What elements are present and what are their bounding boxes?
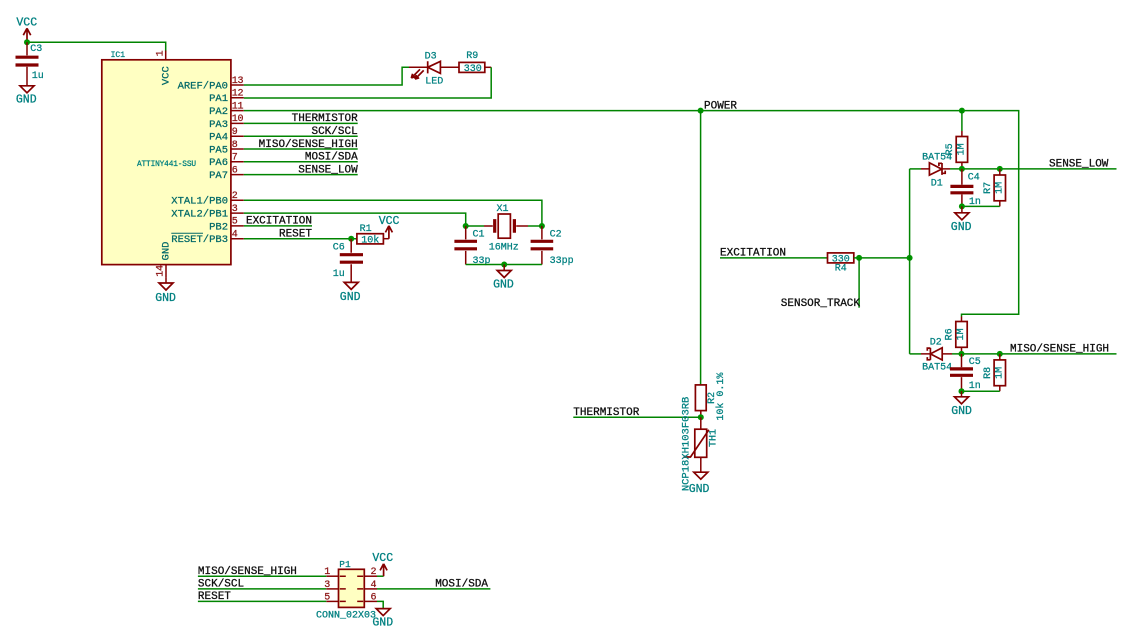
crystal X1 [489, 204, 519, 253]
wire SENSOR_TRACK stub [858, 258, 860, 308]
ground below C6 [340, 282, 361, 304]
capacitor C3 [16, 42, 44, 86]
wire with label THERMISTOR [573, 416, 701, 418]
wire pin11 POWER net horizontal [244, 111, 1019, 317]
wire with label MISO/SENSE_HIGH (P1 pin1) [198, 575, 326, 577]
capacitor C1 [454, 226, 490, 267]
svg-text:1u: 1u [32, 71, 44, 82]
svg-text:XTAL2/PB1: XTAL2/PB1 [171, 209, 228, 221]
svg-text:SENSOR_TRACK: SENSOR_TRACK [781, 298, 861, 310]
svg-text:1M: 1M [956, 143, 967, 155]
svg-text:C4: C4 [968, 172, 980, 183]
svg-text:SCK/SCL: SCK/SCL [198, 579, 244, 591]
resistor R5 [945, 111, 968, 169]
svg-text:R8: R8 [983, 367, 994, 379]
ground below TH1 [689, 472, 710, 496]
svg-text:R4: R4 [835, 264, 847, 275]
wire pin2 to crystal right [244, 200, 542, 226]
svg-text:2: 2 [371, 567, 377, 578]
junction THERMISTOR node [698, 414, 704, 420]
capacitor C2 [531, 226, 574, 267]
svg-text:10k: 10k [361, 235, 379, 247]
svg-text:1u: 1u [333, 269, 345, 280]
svg-text:R1: R1 [360, 224, 372, 235]
capacitor C5 [950, 354, 981, 392]
svg-text:C6: C6 [333, 242, 345, 253]
svg-text:TH1: TH1 [708, 429, 719, 447]
svg-text:PA1: PA1 [209, 93, 228, 105]
pin 1 VCC (top) [155, 50, 172, 85]
svg-text:14: 14 [155, 265, 166, 277]
resistor R8 [983, 354, 1006, 391]
diode D1 BAT54 [910, 152, 953, 189]
svg-text:D2: D2 [930, 337, 942, 348]
svg-text:MOSI/SDA: MOSI/SDA [305, 152, 358, 164]
svg-text:SENSE_LOW: SENSE_LOW [298, 164, 358, 176]
P1 pin numbers [324, 567, 376, 603]
svg-text:GND: GND [689, 483, 710, 496]
svg-text:1M: 1M [994, 182, 1005, 194]
ground at P1 pin6 [372, 601, 393, 629]
resistor R1 [357, 224, 384, 246]
svg-text:PA2: PA2 [209, 106, 228, 118]
svg-text:MISO/SENSE_HIGH: MISO/SENSE_HIGH [198, 566, 297, 578]
svg-text:MOSI/SDA: MOSI/SDA [435, 579, 488, 591]
svg-text:D1: D1 [931, 178, 943, 189]
wire pin4 RESET to R1 [244, 238, 357, 240]
P1 pin 3 stub [326, 588, 338, 590]
svg-text:BAT54: BAT54 [922, 363, 952, 374]
ground below crystal [493, 265, 514, 292]
IC1 right-side pin numbers [232, 76, 244, 241]
svg-text:D3: D3 [425, 52, 437, 63]
power flag VCC (top left) [16, 17, 37, 43]
svg-text:PB2: PB2 [209, 221, 228, 233]
svg-text:THERMISTOR: THERMISTOR [573, 407, 639, 419]
svg-text:SCK/SCL: SCK/SCL [311, 126, 357, 138]
wire with label SCK/SCL (P1 pin3) [198, 588, 326, 590]
capacitor C6 [333, 239, 363, 283]
junction crystal right node [539, 223, 545, 229]
junction R7 top [997, 166, 1003, 172]
svg-text:XTAL1/PB0: XTAL1/PB0 [171, 196, 228, 208]
svg-text:GND: GND [340, 291, 361, 304]
junction C4 bottom [959, 203, 965, 209]
wire diode column vertical [909, 169, 911, 354]
wire R2 to TH1 node [700, 411, 702, 418]
op-amp/IC U1 body: ATTINY441 IC1 [102, 51, 231, 265]
svg-text:6: 6 [371, 592, 377, 603]
junction R5 top [959, 108, 965, 114]
svg-text:MISO/SENSE_HIGH: MISO/SENSE_HIGH [1010, 344, 1109, 356]
svg-text:PA7: PA7 [209, 170, 228, 182]
LED D3 [409, 52, 443, 88]
svg-text:VCC: VCC [160, 66, 172, 85]
ground below C3 [16, 86, 37, 107]
junction crystal ground [501, 262, 507, 268]
svg-text:C3: C3 [30, 44, 42, 55]
pin 14 GND (bottom) [155, 242, 172, 278]
svg-text:POWER: POWER [704, 100, 737, 112]
svg-text:R7: R7 [983, 182, 994, 194]
svg-text:THERMISTOR: THERMISTOR [292, 113, 358, 125]
IC1 right-side pin names [171, 80, 228, 246]
svg-text:4: 4 [371, 580, 377, 591]
svg-text:C1: C1 [473, 230, 485, 241]
wire R9 to pin12 [485, 66, 491, 68]
wire R7 bottom to C4 bottom [962, 205, 1000, 207]
svg-text:GND: GND [951, 221, 972, 234]
svg-text:GND: GND [372, 617, 393, 630]
svg-text:CONN_02X03: CONN_02X03 [316, 611, 376, 622]
P1 pin 2 stub [364, 575, 377, 577]
svg-text:IC1: IC1 [111, 51, 126, 60]
svg-text:MISO/SENSE_HIGH: MISO/SENSE_HIGH [259, 139, 358, 151]
resistor R7 [983, 169, 1006, 207]
svg-text:VCC: VCC [16, 17, 37, 30]
wire LED anode to R9 [440, 66, 459, 68]
P1 pin 4 stub [364, 588, 377, 590]
svg-text:GND: GND [155, 292, 176, 305]
svg-text:VCC: VCC [379, 215, 400, 228]
svg-text:PA6: PA6 [209, 157, 228, 169]
wire pin9 with label SCK/SCL [244, 135, 358, 137]
svg-text:10k 0.1%: 10k 0.1% [715, 373, 727, 421]
wire POWER column down to R2 [700, 111, 702, 385]
thermistor TH1 [680, 397, 719, 492]
wire pin5 with label EXCITATION [244, 225, 312, 227]
svg-text:ATTINY441-SSU: ATTINY441-SSU [137, 161, 196, 169]
svg-text:16MHz: 16MHz [489, 242, 519, 253]
svg-text:SENSE_LOW: SENSE_LOW [1049, 159, 1109, 171]
svg-text:C2: C2 [550, 230, 562, 241]
junction C6 top [348, 236, 354, 242]
svg-text:R9: R9 [466, 51, 478, 62]
svg-text:330: 330 [464, 64, 482, 75]
svg-text:1: 1 [155, 50, 166, 56]
resistor R4 [828, 253, 854, 275]
svg-text:33pp: 33pp [550, 256, 574, 267]
wire crystal bottom [466, 264, 542, 266]
svg-text:GND: GND [493, 278, 514, 291]
junction at VCC/C3 [24, 39, 30, 45]
wire pin3 to crystal left [244, 213, 466, 226]
wire pin8 with label MISO/SENSE_HIGH [244, 148, 358, 150]
svg-text:AREF/PA0: AREF/PA0 [178, 80, 228, 92]
resistor R6 [945, 317, 968, 354]
svg-text:R6: R6 [945, 328, 956, 340]
connector P1 body [316, 559, 376, 622]
svg-text:1M: 1M [994, 367, 1005, 379]
svg-text:LED: LED [425, 76, 443, 87]
wire with label RESET (P1 pin5) [198, 600, 326, 602]
wire pin7 with label MOSI/SDA [244, 161, 358, 163]
wire with label EXCITATION (to R4) [720, 257, 828, 259]
junction crystal left node [463, 223, 469, 229]
power flag VCC (at R1) [379, 215, 400, 239]
ground below C4 [951, 206, 972, 234]
svg-text:33p: 33p [473, 256, 491, 267]
junction POWER column [698, 108, 704, 114]
P1 pin 1 stub [326, 575, 338, 577]
junction C5 bottom [959, 388, 965, 394]
wire R4 to sensor column [854, 257, 910, 259]
junction R8 top [997, 351, 1003, 357]
svg-text:RESET: RESET [279, 229, 312, 241]
capacitor C4 [950, 169, 981, 208]
svg-text:VCC: VCC [372, 552, 393, 565]
power flag VCC (P1 pin2) [372, 552, 393, 576]
svg-text:RESET/PB3: RESET/PB3 [171, 234, 228, 246]
svg-text:C5: C5 [969, 357, 981, 368]
wire pin13 to LED loop [244, 67, 409, 85]
wire crystal left node to X1 [466, 225, 484, 227]
junction SENSOR_TRACK [856, 255, 862, 261]
svg-text:1n: 1n [969, 381, 981, 392]
ground below C5 [951, 391, 972, 418]
wire VCC to IC1 pin 1 [27, 42, 166, 51]
P1 pin 6 stub [364, 600, 377, 602]
svg-text:EXCITATION: EXCITATION [720, 248, 786, 260]
wire pin10 with label THERMISTOR [244, 122, 358, 124]
P1 inner pin ticks [340, 576, 363, 601]
wire D1 to SENSE_LOW [950, 168, 1117, 170]
svg-text:RESET: RESET [198, 591, 231, 603]
svg-text:PA3: PA3 [209, 119, 228, 131]
junction C4 top [959, 166, 965, 172]
wire X1 to crystal right node [516, 225, 528, 227]
wire D2 to MISO/SENSE_HIGH [952, 353, 1117, 355]
svg-text:P1: P1 [339, 559, 351, 570]
svg-text:PA4: PA4 [209, 132, 228, 144]
svg-text:PA5: PA5 [209, 144, 228, 156]
junction excitation/diode column [907, 255, 913, 261]
svg-text:1M: 1M [956, 328, 967, 340]
wire pin6 with label SENSE_LOW [244, 174, 358, 176]
svg-text:BAT54: BAT54 [922, 152, 952, 163]
ground below IC1 pin 14 [155, 277, 176, 304]
P1 pin 5 stub [326, 600, 338, 602]
resistor R9 [459, 51, 485, 75]
svg-text:NCP18XH103F03RB: NCP18XH103F03RB [680, 397, 692, 492]
junction C5 top [959, 351, 965, 357]
svg-text:EXCITATION: EXCITATION [246, 216, 312, 228]
resistor R2 [695, 373, 727, 421]
wire R8 bottom to C5 bottom [962, 390, 1000, 392]
svg-text:GND: GND [16, 93, 37, 106]
wire P1 pin4 with label MOSI/SDA [377, 588, 490, 590]
svg-text:GND: GND [951, 405, 972, 418]
IC1 right-side pin stubs [231, 85, 244, 239]
svg-text:X1: X1 [497, 204, 509, 215]
diode D2 BAT54 [910, 337, 953, 373]
